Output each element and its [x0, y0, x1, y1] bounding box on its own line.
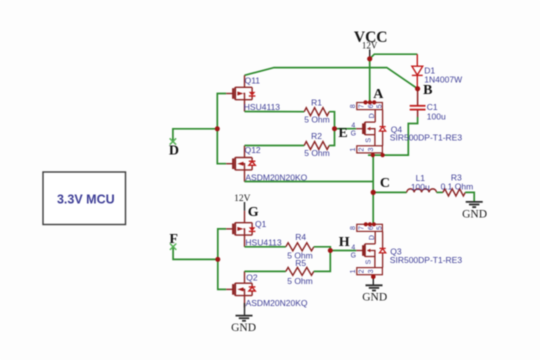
wire: F flag to gate bus — [173, 247, 218, 260]
wire: L1 to R3 — [437, 191, 443, 193]
svg-text:C: C — [380, 176, 390, 191]
svg-text:100u: 100u — [427, 111, 446, 121]
svg-text:Q1: Q1 — [255, 219, 267, 229]
resistor R2 5 Ohm — [304, 142, 329, 150]
wire: Q12 source to node C vertical — [245, 181, 374, 183]
resistor R4 5 Ohm — [286, 243, 314, 251]
junction: Q3 source — [371, 275, 376, 280]
transistor Q12 ASDM20N20KQ (N-MOSFET) — [226, 146, 255, 182]
svg-text:5 Ohm: 5 Ohm — [287, 276, 313, 286]
Q3 source stub to ground — [372, 275, 374, 277]
wire: VCC to D1 anode — [370, 54, 418, 59]
junction: node C — [371, 190, 376, 195]
svg-text:F: F — [169, 232, 178, 247]
wire: gate bus F (Q1/Q2 gates) — [218, 229, 226, 290]
wire: Q3 drain pin row — [365, 223, 374, 225]
power flag VCC 12V — [354, 29, 388, 59]
transistor Q1 HSU4113 (P-MOSFET) — [226, 211, 255, 247]
svg-text:H: H — [339, 235, 350, 250]
wire: R4/R5 join to node H — [314, 247, 331, 272]
svg-text:R2: R2 — [311, 131, 322, 141]
wire: Q2 source to ground — [244, 303, 246, 316]
svg-text:GND: GND — [362, 292, 387, 304]
power flag 12V (Q1 drain) — [234, 194, 251, 211]
wire: node C vertical — [372, 155, 374, 224]
Q4 source pin stubs — [372, 153, 374, 155]
svg-text:G: G — [248, 205, 259, 220]
transistor Q2 ASDM20N20KQ (N-MOSFET) — [226, 271, 255, 307]
capacitor C1 100u — [410, 89, 426, 117]
wire: VCC down to node A (Q4 drain) — [369, 59, 371, 103]
wire: R3 to ground — [465, 192, 474, 202]
junction: node H — [328, 248, 333, 253]
junctions: Q4 source pins — [371, 153, 375, 157]
svg-text:GND: GND — [231, 322, 256, 334]
wire: C1 bottom to Q4 source row — [368, 117, 418, 155]
net flag F (X marker) — [170, 244, 176, 250]
wire: gate bus D (Q11/Q12 gates) — [217, 94, 226, 164]
svg-text:ASDM20N20KQ: ASDM20N20KQ — [246, 298, 308, 308]
junction: node B — [415, 86, 420, 91]
junction: VCC node — [367, 56, 372, 61]
transistor Q11 HSU4113 (P-MOSFET) — [226, 75, 255, 111]
diode D1 1N4007W — [412, 54, 423, 88]
resistor R5 5 Ohm — [286, 267, 314, 275]
svg-text:D: D — [169, 144, 179, 159]
wire: R1/R2 join to node E — [329, 112, 334, 146]
ground (under Q2) — [236, 316, 253, 321]
svg-text:5 Ohm: 5 Ohm — [304, 114, 330, 124]
ground (right of R3) — [466, 202, 483, 207]
wire: Q11 source to R1 — [245, 111, 305, 113]
svg-text:0.1 Ohm: 0.1 Ohm — [441, 182, 474, 192]
svg-text:12V: 12V — [362, 41, 378, 51]
svg-text:B: B — [423, 83, 432, 98]
svg-text:R4: R4 — [295, 232, 306, 242]
wire: node A pin row — [365, 101, 374, 103]
transistor Q3 SIR500DP-T1-RE3 (SO-8 N-MOSFET) — [350, 224, 386, 274]
svg-text:3.3V MCU: 3.3V MCU — [57, 193, 115, 207]
svg-text:HSU4113: HSU4113 — [244, 102, 280, 112]
wire: node H to Q3 gate — [330, 250, 356, 252]
svg-text:100u: 100u — [411, 182, 430, 192]
resistor R1 5 Ohm — [304, 108, 329, 116]
svg-text:R5: R5 — [295, 258, 306, 268]
svg-text:R1: R1 — [311, 97, 322, 107]
wire: node E to Q4 gate — [335, 128, 357, 130]
svg-text:SIR500DP-T1-RE3: SIR500DP-T1-RE3 — [390, 133, 463, 143]
resistor R3 0.1 Ohm — [443, 189, 465, 196]
svg-text:GND: GND — [462, 209, 487, 221]
net flag D (X marker) — [170, 138, 176, 144]
svg-text:HSU4113: HSU4113 — [245, 237, 281, 247]
inductor L1 100u — [407, 189, 437, 193]
wire: node C to L1 — [373, 191, 407, 193]
svg-text:12V: 12V — [234, 194, 251, 204]
wire: D flag to gate bus — [173, 129, 217, 142]
junction: gate bus D — [215, 126, 220, 131]
junction: gate bus F — [215, 257, 220, 262]
junction: node E — [332, 126, 337, 131]
wire: Q12 drain to R2 — [245, 145, 305, 147]
svg-text:A: A — [373, 87, 384, 102]
wire: Q1 source to R4 — [245, 246, 286, 248]
wire: Q3 source to ground — [372, 277, 374, 285]
svg-text:E: E — [338, 126, 347, 141]
svg-text:5 Ohm: 5 Ohm — [304, 148, 330, 158]
svg-text:Q2: Q2 — [246, 273, 258, 283]
transistor Q4 SIR500DP-T1-RE3 (SO-8 N-MOSFET) — [350, 103, 386, 153]
svg-text:Q11: Q11 — [245, 76, 261, 86]
ground (under Q3) — [366, 285, 383, 290]
svg-text:SIR500DP-T1-RE3: SIR500DP-T1-RE3 — [390, 255, 463, 265]
wire: Q2 drain to R5 — [245, 270, 286, 272]
junctions: Q3 drain pins — [364, 222, 368, 226]
junctions: node A pins — [363, 100, 367, 104]
wire: Q11 drain diagonal to node B — [245, 68, 418, 89]
3.3V MCU block — [43, 172, 126, 225]
